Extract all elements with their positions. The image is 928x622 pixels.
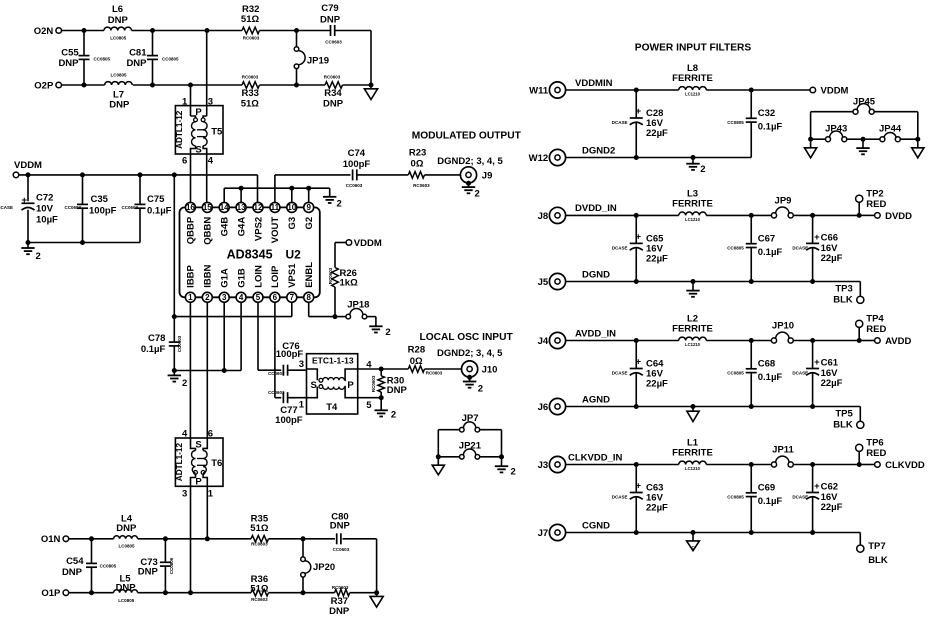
- svg-text:100pF: 100pF: [275, 415, 303, 426]
- svg-text:2: 2: [36, 251, 41, 262]
- svg-text:RC0603: RC0603: [332, 585, 349, 590]
- svg-text:1: 1: [188, 293, 193, 302]
- wire ENBL pin8: [308, 302, 310, 316]
- connector J7: [549, 524, 565, 540]
- svg-text:MODULATED OUTPUT: MODULATED OUTPUT: [412, 130, 522, 141]
- capacitor C61 (bulk out): [812, 341, 814, 369]
- svg-text:4: 4: [208, 155, 214, 166]
- svg-text:3: 3: [299, 359, 304, 370]
- svg-text:G4B: G4B: [220, 217, 231, 237]
- svg-text:DNP: DNP: [109, 100, 130, 111]
- terminal VDDM: [810, 87, 816, 93]
- svg-text:TP2: TP2: [866, 188, 883, 199]
- svg-text:VPS1: VPS1: [287, 263, 298, 288]
- svg-text:22µF: 22µF: [821, 253, 843, 264]
- svg-text:FERRITE: FERRITE: [672, 448, 713, 459]
- terminal O2N: [56, 28, 62, 34]
- connector J5: [549, 273, 565, 289]
- svg-text:C32: C32: [758, 108, 775, 119]
- resistor R35: [251, 536, 268, 543]
- svg-text:C: C: [691, 545, 694, 550]
- test point TP5: [859, 407, 861, 422]
- svg-text:JP20: JP20: [313, 562, 335, 573]
- inductor L1: [679, 461, 707, 464]
- resistor R33: [242, 82, 260, 89]
- svg-text:2: 2: [511, 467, 516, 478]
- wire T5 pin3 from O2N: [206, 31, 208, 117]
- wire decoupling ground bus: [28, 242, 140, 244]
- svg-text:FERRITE: FERRITE: [672, 73, 713, 84]
- svg-text:0.1µF: 0.1µF: [758, 496, 783, 507]
- ground (JP block left): [437, 457, 439, 465]
- svg-text:RC0603: RC0603: [251, 597, 268, 602]
- capacitor C79: [330, 25, 332, 36]
- svg-text:O1N: O1N: [41, 534, 61, 545]
- test point TP6: [856, 444, 863, 451]
- svg-text:RC0603: RC0603: [242, 75, 259, 80]
- svg-text:TP3: TP3: [835, 283, 852, 294]
- svg-text:LC0805: LC0805: [110, 73, 127, 78]
- svg-text:CC0805: CC0805: [100, 563, 117, 568]
- transformer T5 box: [175, 106, 223, 154]
- svg-text:LOCAL OSC INPUT: LOCAL OSC INPUT: [419, 332, 513, 343]
- svg-text:DCASE: DCASE: [612, 495, 628, 500]
- svg-text:0.1µF: 0.1µF: [147, 206, 172, 217]
- test point TP2: [856, 195, 863, 202]
- inductor L7: [105, 82, 133, 85]
- wire T5 pin4 to U2 pin15: [203, 146, 207, 203]
- svg-text:6: 6: [182, 155, 187, 166]
- svg-text:P: P: [195, 107, 202, 118]
- svg-text:VDDM: VDDM: [14, 160, 42, 171]
- T6 internals: [191, 438, 196, 451]
- svg-text:12: 12: [254, 203, 263, 212]
- ground (JP18) 2: [369, 325, 382, 327]
- inductor L2: [679, 337, 707, 340]
- jumper JP19: [296, 31, 298, 47]
- svg-text:R33: R33: [241, 88, 258, 99]
- svg-text:0Ω: 0Ω: [411, 159, 424, 170]
- svg-text:DCASE: DCASE: [612, 245, 628, 250]
- svg-text:DCASE: DCASE: [612, 371, 628, 376]
- svg-text:DNP: DNP: [116, 582, 137, 593]
- T4 lower winding: [307, 387, 318, 398]
- svg-text:2: 2: [205, 293, 210, 302]
- wire LOIP to C77: [274, 302, 276, 397]
- resistor R34: [325, 82, 342, 89]
- svg-text:CC0805: CC0805: [727, 245, 744, 250]
- svg-text:6: 6: [273, 293, 278, 302]
- wire R23 to J9: [425, 174, 461, 176]
- capacitor C54: [91, 539, 93, 563]
- svg-text:0.1µF: 0.1µF: [758, 122, 783, 133]
- svg-text:RC0603: RC0603: [371, 375, 376, 392]
- ground (O1 section): [376, 593, 378, 597]
- svg-text:CC0603: CC0603: [325, 40, 342, 45]
- svg-text:+: +: [814, 481, 820, 492]
- svg-text:C54: C54: [66, 556, 84, 567]
- wire VDDM to VPS1/C78: [173, 175, 175, 342]
- svg-text:2: 2: [475, 189, 480, 200]
- capacitor C69 (0.1uF): [750, 465, 752, 493]
- svg-text:DCASE: DCASE: [792, 245, 808, 250]
- svg-text:1: 1: [208, 489, 214, 500]
- svg-text:2: 2: [337, 198, 342, 209]
- connector J10: [462, 361, 478, 377]
- svg-text:CGND: CGND: [582, 520, 610, 531]
- capacitor C67 (0.1uF): [750, 215, 752, 243]
- svg-text:J4: J4: [538, 336, 549, 347]
- ground (CGND): [692, 533, 694, 541]
- wire O2N line: [62, 30, 105, 32]
- svg-text:51Ω: 51Ω: [241, 98, 260, 109]
- wire DGND2 line: [566, 157, 752, 159]
- svg-text:LC0805: LC0805: [118, 543, 135, 548]
- wire U2 pin1 to T6: [189, 302, 191, 438]
- svg-text:BCASE: BCASE: [0, 205, 13, 210]
- svg-text:CC0603: CC0603: [346, 183, 363, 188]
- svg-text:VPS2: VPS2: [253, 217, 264, 241]
- svg-text:DNP: DNP: [58, 58, 79, 69]
- svg-text:0Ω: 0Ω: [410, 356, 423, 367]
- ground (JP45 right): [917, 139, 919, 148]
- svg-text:51Ω: 51Ω: [241, 14, 260, 25]
- svg-text:R28: R28: [408, 344, 425, 355]
- resistor R23: [408, 172, 424, 179]
- resistor R26: [332, 268, 339, 288]
- svg-text:+: +: [814, 357, 820, 368]
- svg-text:CLKVDD_IN: CLKVDD_IN: [568, 452, 623, 463]
- svg-text:QBBN: QBBN: [203, 217, 214, 245]
- ground (J10) 2: [467, 375, 472, 380]
- svg-text:W11: W11: [529, 86, 549, 97]
- svg-text:DNP: DNP: [116, 523, 137, 534]
- svg-text:0.1µF: 0.1µF: [758, 372, 783, 383]
- svg-text:RC0603: RC0603: [328, 267, 333, 284]
- ground (G bus) 2: [329, 188, 331, 196]
- svg-text:AGND: AGND: [582, 394, 610, 405]
- wire R26 to JP18 node: [334, 287, 336, 317]
- svg-text:8: 8: [306, 293, 311, 302]
- test point TP7: [859, 533, 861, 546]
- svg-text:TP4: TP4: [866, 313, 884, 324]
- svg-text:P: P: [347, 380, 354, 391]
- U2 bottom pin circles 1-8: [185, 292, 195, 302]
- connector J6: [549, 398, 565, 414]
- test point TP3: [859, 282, 861, 297]
- resistor R30: [380, 369, 382, 376]
- svg-text:DNP: DNP: [329, 606, 350, 617]
- svg-text:JP19: JP19: [307, 56, 329, 67]
- svg-text:+: +: [636, 106, 642, 117]
- wire T5 pin6 to U2 pin16: [191, 146, 196, 203]
- capacitor C75: [139, 175, 141, 204]
- wire VOUT to C74: [274, 175, 276, 203]
- connector J3: [549, 456, 565, 472]
- svg-text:2: 2: [700, 164, 705, 175]
- ground (DGND): [692, 282, 694, 291]
- svg-text:LC1210: LC1210: [685, 466, 701, 471]
- svg-text:100pF: 100pF: [89, 206, 117, 217]
- svg-text:O2P: O2P: [34, 80, 54, 91]
- svg-text:LOIP: LOIP: [270, 265, 281, 288]
- svg-text:51Ω: 51Ω: [250, 523, 269, 534]
- svg-text:DNP: DNP: [330, 521, 351, 532]
- connector J9: [460, 167, 476, 183]
- svg-text:10µF: 10µF: [36, 214, 58, 225]
- svg-text:VDDM: VDDM: [354, 238, 382, 249]
- svg-text:CLKVDD: CLKVDD: [885, 460, 925, 471]
- svg-text:S: S: [311, 380, 317, 391]
- svg-text:DGND2: DGND2: [582, 145, 615, 156]
- svg-text:2: 2: [478, 383, 483, 394]
- svg-text:AVDD_IN: AVDD_IN: [575, 328, 616, 339]
- capacitor C72: [27, 175, 29, 201]
- wire CLKVDD_IN rail: [566, 464, 679, 466]
- capacitor C32 (0.1uF): [750, 90, 752, 118]
- capacitor C66 (bulk out): [812, 215, 814, 243]
- svg-text:DCASE: DCASE: [612, 120, 628, 125]
- svg-text:DVDD: DVDD: [885, 211, 912, 222]
- resistor R36: [251, 589, 268, 596]
- svg-text:CC0603: CC0603: [268, 390, 285, 395]
- svg-text:TP7: TP7: [868, 541, 885, 552]
- svg-text:POWER INPUT FILTERS: POWER INPUT FILTERS: [635, 43, 752, 54]
- svg-text:CC0805: CC0805: [727, 371, 744, 376]
- svg-text:JP11: JP11: [772, 445, 794, 456]
- capacitor C63 (bulk): [635, 465, 637, 493]
- svg-text:S: S: [195, 145, 201, 156]
- capacitor C28 (bulk): [635, 90, 637, 118]
- svg-text:O2N: O2N: [34, 26, 54, 37]
- svg-text:LC0805: LC0805: [118, 598, 135, 603]
- svg-text:CC0806: CC0806: [169, 557, 174, 574]
- svg-text:S: S: [195, 439, 201, 450]
- svg-text:4: 4: [182, 428, 188, 439]
- svg-text:DNP: DNP: [320, 14, 341, 25]
- capacitor C77: [282, 392, 284, 403]
- T4 upper winding: [307, 369, 318, 380]
- svg-text:JP18: JP18: [347, 299, 369, 310]
- svg-text:IBBN: IBBN: [203, 264, 214, 287]
- svg-text:G1A: G1A: [220, 268, 231, 288]
- svg-text:G3: G3: [287, 217, 298, 230]
- svg-text:C72: C72: [36, 192, 53, 203]
- svg-text:7: 7: [290, 293, 295, 302]
- svg-text:AVDD: AVDD: [885, 336, 911, 347]
- wire JP7 block sides: [437, 430, 439, 457]
- svg-text:DCASE: DCASE: [792, 495, 808, 500]
- svg-text:G1B: G1B: [236, 268, 247, 288]
- svg-text:1kΩ: 1kΩ: [340, 278, 359, 289]
- svg-text:L6: L6: [112, 4, 123, 15]
- svg-text:3: 3: [222, 293, 227, 302]
- svg-text:QBBP: QBBP: [186, 216, 197, 244]
- svg-text:15: 15: [203, 203, 212, 212]
- resistor R32: [242, 27, 260, 34]
- svg-text:J6: J6: [538, 402, 549, 413]
- svg-text:+: +: [636, 481, 642, 492]
- capacitor C76: [282, 365, 284, 376]
- wire AVDD_IN rail: [566, 340, 679, 342]
- svg-text:13: 13: [237, 203, 246, 212]
- svg-text:10V: 10V: [36, 203, 54, 214]
- svg-text:22µF: 22µF: [646, 128, 668, 139]
- wire T6 pin1 to O1N: [206, 486, 208, 539]
- svg-text:CC0805: CC0805: [94, 56, 111, 61]
- wire C76 to T4 pin3: [288, 369, 307, 371]
- capacitor C68 (0.1uF): [750, 341, 752, 369]
- svg-text:J3: J3: [538, 460, 549, 471]
- capacitor C74: [352, 169, 354, 180]
- svg-text:4: 4: [239, 293, 244, 302]
- svg-text:T6: T6: [211, 458, 222, 469]
- capacitor C73: [164, 539, 166, 562]
- svg-text:10: 10: [287, 203, 296, 212]
- wire O1P line: [69, 592, 114, 594]
- wire T4 pin5 to ground node: [358, 397, 382, 399]
- svg-text:BLK: BLK: [868, 555, 888, 566]
- wire VDDM rail to VPS2 pin12: [257, 175, 259, 203]
- svg-text:C68: C68: [758, 358, 775, 369]
- wire LOIN to C76: [257, 302, 259, 370]
- svg-text:C75: C75: [147, 194, 165, 205]
- wire JP18 to ground: [367, 316, 376, 318]
- wire C74 to R23: [357, 174, 409, 176]
- capacitor C62 (bulk out): [812, 465, 814, 493]
- svg-text:BLK: BLK: [833, 419, 853, 430]
- wire T4 pin4 to R28: [358, 368, 409, 370]
- capacitor C80: [336, 533, 338, 544]
- svg-text:22µF: 22µF: [646, 379, 668, 390]
- svg-text:DCASE: DCASE: [792, 371, 808, 376]
- svg-text:2: 2: [182, 378, 187, 389]
- ground (JP block right) 2: [501, 457, 503, 466]
- ground (decoupling) 2: [27, 243, 29, 248]
- test point TP4: [856, 320, 863, 327]
- terminal VDDM (left): [13, 172, 19, 178]
- wire VPS1 bus: [174, 316, 291, 318]
- ground (T4 pin5) 2: [380, 398, 382, 410]
- capacitor C35: [82, 175, 84, 204]
- svg-text:RED: RED: [866, 324, 886, 335]
- svg-text:22µF: 22µF: [821, 502, 843, 513]
- svg-text:RC0603: RC0603: [243, 35, 260, 40]
- ground (JP43/44 center): [862, 139, 864, 147]
- svg-text:P: P: [195, 477, 202, 488]
- svg-text:1: 1: [299, 400, 305, 411]
- svg-text:CC0805: CC0805: [162, 56, 179, 61]
- svg-text:DVDD_IN: DVDD_IN: [575, 203, 617, 214]
- wire corner C80/R37: [376, 539, 378, 593]
- svg-text:LOIN: LOIN: [253, 265, 264, 288]
- svg-text:J7: J7: [538, 528, 549, 539]
- svg-text:C69: C69: [758, 482, 775, 493]
- terminal AVDD: [875, 338, 881, 344]
- svg-text:VDDM: VDDM: [821, 86, 849, 97]
- svg-text:1: 1: [182, 96, 188, 107]
- svg-text:C81: C81: [129, 47, 147, 58]
- inductor L5: [114, 590, 138, 593]
- svg-text:RC0603: RC0603: [324, 75, 341, 80]
- transformer T6 box: [175, 438, 223, 486]
- svg-text:ENBL: ENBL: [304, 262, 315, 288]
- wire JP block sides: [810, 112, 812, 140]
- svg-text:DNP: DNP: [108, 15, 129, 26]
- svg-text:JP10: JP10: [772, 321, 794, 332]
- svg-text:J5: J5: [538, 277, 549, 288]
- svg-text:6: 6: [208, 428, 213, 439]
- wire U2 pin2 to T6: [206, 302, 208, 438]
- wire CGND line: [566, 532, 861, 534]
- svg-text:W12: W12: [529, 153, 549, 164]
- wire G1A/G1B ground bus: [174, 370, 241, 372]
- svg-text:R34: R34: [324, 88, 342, 99]
- svg-text:J9: J9: [482, 171, 493, 182]
- svg-text:RED: RED: [866, 199, 886, 210]
- wire G4B/G4A/G3/G2 ground bus: [223, 188, 225, 202]
- ground (DGND2) 2: [692, 158, 694, 164]
- wire T6 pin3 to O1P: [190, 486, 192, 592]
- svg-text:U2: U2: [286, 247, 302, 261]
- svg-text:J10: J10: [482, 365, 498, 376]
- jumper JP10: [771, 338, 776, 343]
- svg-text:T5: T5: [211, 126, 223, 137]
- transformer T4 box: [307, 354, 358, 414]
- jumper JP11: [771, 462, 776, 467]
- svg-text:CC0805: CC0805: [727, 120, 744, 125]
- capacitor C55: [83, 31, 85, 56]
- svg-text:9: 9: [306, 203, 311, 212]
- svg-text:100pF: 100pF: [343, 159, 371, 170]
- svg-text:O1P: O1P: [41, 588, 61, 599]
- jumper JP9: [771, 213, 776, 218]
- resistor R37: [335, 589, 350, 596]
- svg-text:0.1µF: 0.1µF: [141, 344, 166, 355]
- capacitor C78: [169, 341, 180, 343]
- svg-text:DNP: DNP: [126, 58, 147, 69]
- connector W11: [549, 82, 565, 98]
- svg-text:CC0603: CC0603: [121, 205, 138, 210]
- capacitor C81: [152, 31, 154, 56]
- ground (C78) 2: [173, 371, 175, 375]
- wire corner C79/R34 to ground: [370, 31, 372, 86]
- wire R28 to J10: [425, 368, 462, 370]
- terminal O2P: [56, 82, 62, 88]
- terminal DVDD: [875, 213, 881, 219]
- inductor L3: [679, 212, 707, 215]
- svg-text:22µF: 22µF: [821, 378, 843, 389]
- svg-text:CC0603: CC0603: [177, 335, 182, 352]
- svg-text:2: 2: [385, 327, 390, 338]
- svg-text:CC0603: CC0603: [268, 371, 285, 376]
- svg-text:+: +: [814, 232, 820, 243]
- svg-text:FERRITE: FERRITE: [672, 324, 713, 335]
- svg-text:BLK: BLK: [833, 294, 853, 305]
- svg-text:RED: RED: [866, 448, 886, 459]
- svg-text:LC1210: LC1210: [685, 217, 701, 222]
- svg-text:VDDMIN: VDDMIN: [575, 78, 613, 89]
- svg-text:+: +: [636, 231, 642, 242]
- wire AGND line: [566, 406, 861, 408]
- svg-text:LC1210: LC1210: [685, 342, 701, 347]
- wire T5 pin1 from O2P: [190, 85, 192, 116]
- svg-text:TP5: TP5: [835, 408, 853, 419]
- svg-text:ADTL1-12: ADTL1-12: [175, 110, 184, 149]
- svg-text:DGND2; 3, 4, 5: DGND2; 3, 4, 5: [437, 156, 503, 167]
- svg-text:C79: C79: [321, 3, 338, 14]
- svg-text:14: 14: [220, 203, 229, 212]
